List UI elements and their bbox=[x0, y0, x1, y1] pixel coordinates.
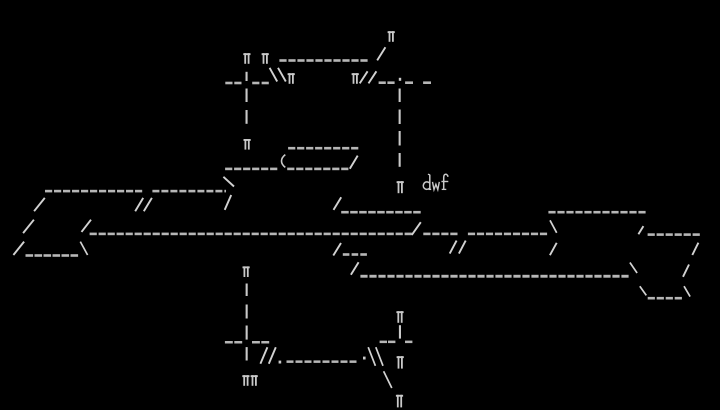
superstructure aft upper edge bbox=[223, 177, 234, 187]
main mast pole bbox=[246, 72, 248, 124]
main mast gaff pennant halyard bbox=[270, 68, 286, 82]
main mast truck finial port bbox=[243, 53, 250, 64]
foremast truck finial bbox=[388, 31, 395, 42]
towed body mast bbox=[399, 325, 401, 338]
towed body crossarm starboard bbox=[405, 341, 412, 344]
foremast crosstree yard port bbox=[379, 81, 395, 84]
keel mast crossarm bbox=[225, 341, 269, 344]
cargo hatch fore edge bbox=[333, 243, 341, 256]
keel mast pole bbox=[246, 284, 248, 361]
forecastle aft break bbox=[550, 220, 557, 233]
foremast pole bbox=[399, 89, 401, 167]
towing cable aft eye bbox=[363, 357, 366, 360]
bow aft chine upper bbox=[630, 263, 637, 274]
keel mast top fitting bbox=[243, 266, 250, 277]
stern profile upper bbox=[34, 198, 45, 211]
towing cable bbox=[287, 360, 357, 363]
towed gear bridle eye bbox=[279, 361, 282, 364]
midship deckhouse fore edge bbox=[334, 197, 342, 210]
stern counter aft edge bbox=[80, 242, 87, 255]
foremast masthead dot bbox=[399, 78, 401, 81]
towed body upper fitting bbox=[396, 311, 403, 323]
superstructure aft lower edge bbox=[225, 195, 232, 210]
hull sheer line aft run bbox=[90, 233, 412, 236]
funnel front curve bbox=[282, 155, 286, 168]
keel mast foot fitting port bbox=[242, 375, 249, 386]
bow bulwark join bbox=[638, 226, 643, 234]
towed body aft strut bbox=[384, 371, 392, 388]
towed body forward struts bbox=[368, 347, 383, 366]
towed body lower fitting bbox=[396, 395, 403, 408]
stern profile middle bbox=[23, 220, 34, 233]
cargo hatch top bbox=[343, 253, 367, 256]
bow forefoot edge bbox=[684, 286, 690, 296]
poop deck line end stub bbox=[224, 190, 226, 193]
forecastle deck line bbox=[548, 211, 645, 214]
stern inner frame bbox=[82, 220, 92, 232]
funnel aft slanted edge bbox=[350, 156, 358, 169]
hull sheer line mid run bbox=[423, 233, 457, 236]
bow stem lower bbox=[683, 265, 689, 277]
towed body crossarm port bbox=[380, 341, 396, 344]
foremast signal halyards bbox=[360, 71, 377, 83]
foremast topmast stay bbox=[377, 47, 385, 60]
main mast gaff pennant block bbox=[288, 73, 295, 84]
signature dwf bbox=[423, 174, 448, 189]
main stay line to foremast bbox=[279, 59, 367, 62]
keel mast foot fitting starboard bbox=[251, 375, 258, 386]
hull bottom line lead-in bbox=[351, 262, 359, 275]
main mast crosstree yard bbox=[225, 82, 269, 85]
main mast base fitting bbox=[244, 139, 251, 150]
boat deck line aft section bbox=[225, 168, 277, 171]
midship deckhouse top bbox=[341, 211, 421, 214]
towed body mid fitting bbox=[397, 356, 404, 368]
bow stem upper bbox=[692, 243, 698, 255]
foremast base fitting bbox=[397, 181, 404, 193]
bow bottom line bbox=[648, 297, 682, 300]
bow upper line bbox=[648, 233, 700, 236]
deck rail davits bbox=[135, 198, 152, 211]
boat deck line fore section bbox=[287, 168, 348, 171]
hull anchor hawse mark bbox=[550, 243, 557, 255]
stern profile lower bbox=[13, 242, 24, 255]
boat davits aft pair bbox=[450, 241, 466, 254]
foremast crosstree yard starboard bbox=[405, 81, 431, 84]
bow aft chine lower bbox=[640, 286, 647, 295]
funnel top edge bbox=[288, 147, 358, 150]
midship deckhouse aft edge bbox=[412, 222, 421, 235]
hull sheer line fore run bbox=[468, 233, 547, 236]
towed gear bridle lines bbox=[260, 347, 275, 364]
stern counter bottom bbox=[26, 254, 79, 257]
foremast yard block bbox=[352, 73, 359, 84]
poop deck line aft section bbox=[45, 190, 142, 193]
hull bottom line bbox=[360, 275, 628, 278]
main mast truck finial starboard bbox=[262, 53, 269, 64]
poop deck line fore section bbox=[152, 190, 222, 193]
